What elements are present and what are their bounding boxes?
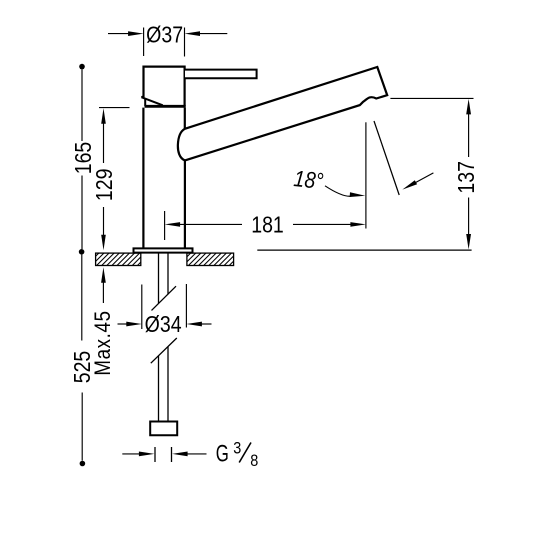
ext line right of diam37 — [184, 28, 186, 57]
pipe break slash 1 — [152, 286, 177, 310]
svg-text:181: 181 — [251, 212, 284, 238]
svg-text:Max.45: Max.45 — [92, 310, 116, 375]
129 dim line lower segment — [103, 207, 105, 237]
ext line right of diam34 — [185, 284, 187, 328]
dim line right of diam37 — [200, 33, 228, 35]
ext line spout tip level — [390, 97, 473, 99]
svg-text:Ø34: Ø34 — [145, 312, 182, 338]
supply pipe left line upper — [158, 253, 160, 304]
deckL — [66, 253, 160, 265]
deckR — [158, 253, 252, 265]
body column right edge upper — [184, 108, 186, 130]
tick left of G38 — [154, 447, 156, 462]
dim line left of diam34 — [118, 323, 128, 325]
arrowhead G38 left — [139, 452, 155, 457]
supply pipe right line upper — [167, 253, 169, 295]
deck level reference line — [257, 249, 471, 251]
dot deck level — [79, 249, 85, 255]
arrowhead 137 top — [466, 99, 471, 115]
ext line faucet axis — [164, 211, 166, 240]
arrowhead 129 top — [101, 108, 106, 124]
arrowhead diam37 right — [185, 31, 201, 36]
181 dim line right segment — [293, 223, 353, 225]
ext line spout outlet vertical — [365, 122, 367, 228]
165 dim line lower segment — [81, 176, 83, 250]
Max45 dim line — [102, 281, 104, 303]
body column right edge lower — [184, 160, 186, 248]
arrowhead 18deg at stream line — [402, 180, 417, 189]
svg-text:129: 129 — [91, 168, 117, 201]
dim line right of G38 — [187, 453, 207, 455]
threaded end block — [150, 422, 177, 436]
dim line right of diam34 — [202, 323, 212, 325]
arrowhead 137 bottom — [466, 234, 471, 250]
525 dim line upper segment — [81, 255, 83, 341]
base plate — [134, 248, 193, 252]
faucet cap outline — [141, 67, 184, 107]
137 dim line upper segment — [468, 113, 470, 158]
supply pipe left line lower — [158, 356, 160, 422]
dot top of 165 dim — [79, 64, 85, 70]
svg-text:8: 8 — [250, 452, 258, 470]
137 dim line lower segment — [468, 198, 470, 237]
tick right of G38 — [171, 447, 173, 462]
lever handle bar — [185, 70, 257, 79]
svg-text:137: 137 — [454, 161, 480, 194]
arrowhead 129 bottom — [101, 235, 106, 251]
18deg second leader line — [415, 173, 434, 183]
cap tilt diagonal — [141, 97, 162, 105]
arrowhead 181 right — [350, 222, 366, 227]
cap bottom edge — [145, 105, 186, 108]
arrowhead Max45 up — [101, 267, 106, 283]
181 dim line left segment — [178, 223, 242, 225]
svg-text:18°: 18° — [292, 166, 325, 195]
129 dim line upper segment — [103, 122, 105, 163]
arrowhead 18deg at vertical line — [350, 192, 366, 197]
fraction slash — [239, 443, 251, 463]
water stream direction line — [374, 121, 399, 195]
cap lower band left edge — [144, 99, 146, 107]
spout — [178, 67, 387, 160]
525 dim line lower segment — [81, 393, 83, 461]
dim line left of G38 — [122, 453, 140, 455]
dim line left of diam37 — [108, 33, 129, 35]
arrowhead diam34 right — [186, 322, 202, 327]
18deg leader curve — [325, 186, 351, 196]
arrowhead diam37 left — [128, 31, 144, 36]
svg-text:G: G — [216, 441, 229, 468]
arrowhead diam34 left — [126, 322, 142, 327]
ext line left of diam34 — [141, 285, 143, 330]
svg-text:Ø37: Ø37 — [146, 22, 183, 48]
165 dim line upper segment — [81, 69, 83, 141]
arrowhead G38 right — [172, 452, 188, 457]
ext line at cap bottom level — [99, 107, 130, 109]
ext line left of diam37 — [143, 28, 145, 57]
dot bottom of 525 dim — [80, 461, 86, 467]
arrowhead 181 left — [165, 222, 181, 227]
supply pipe right line lower — [167, 347, 169, 422]
pipe break slash 2 — [151, 338, 177, 363]
body column left edge — [142, 108, 144, 248]
svg-text:3: 3 — [233, 440, 241, 458]
